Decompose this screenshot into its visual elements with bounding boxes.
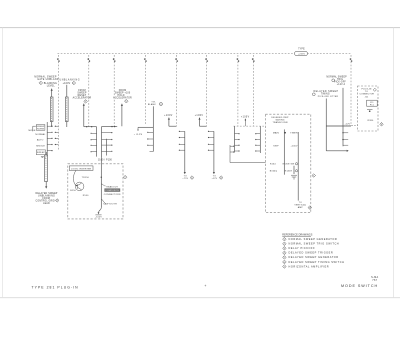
svg-text:R380: R380 bbox=[368, 120, 374, 122]
svg-text:TIMER: TIMER bbox=[290, 133, 298, 135]
svg-text:GATE UNBLANK: GATE UNBLANK bbox=[37, 78, 59, 81]
svg-text:-100V: -100V bbox=[95, 216, 102, 218]
svg-text:TYPE: TYPE bbox=[298, 48, 305, 50]
svg-text:B150: B150 bbox=[70, 190, 76, 192]
svg-text:J11: J11 bbox=[365, 96, 369, 98]
svg-text:NORM: NORM bbox=[37, 129, 44, 131]
svg-text:DELAYED SWEEP TIMING SWITCH: DELAYED SWEEP TIMING SWITCH bbox=[289, 261, 345, 264]
svg-text:MODE SWITCH: MODE SWITCH bbox=[341, 284, 378, 288]
svg-text:TR150: TR150 bbox=[82, 177, 90, 179]
svg-text:+100V: +100V bbox=[195, 115, 204, 117]
svg-text:SWP: SWP bbox=[273, 146, 279, 148]
svg-text:TYPE 281 PLUG-IN: TYPE 281 PLUG-IN bbox=[32, 285, 79, 289]
svg-text:MAIN: MAIN bbox=[273, 132, 279, 135]
svg-text:+75V: +75V bbox=[182, 178, 188, 180]
svg-text:NORMAL SWEEP TRIG SWITCH: NORMAL SWEEP TRIG SWITCH bbox=[289, 243, 340, 246]
svg-text:AUTO: AUTO bbox=[37, 138, 44, 141]
svg-text:PICK-OFF JITTER: PICK-OFF JITTER bbox=[318, 96, 339, 98]
svg-text:BLANKING: BLANKING bbox=[44, 82, 57, 85]
svg-text:ACCELERATOR: ACCELERATOR bbox=[73, 97, 92, 100]
svg-text:VERTICAL: VERTICAL bbox=[294, 204, 306, 207]
svg-text:DELAYED SWEEP: DELAYED SWEEP bbox=[35, 192, 57, 195]
svg-text:NORMAL SWEEP: NORMAL SWEEP bbox=[326, 75, 347, 78]
svg-text:P11: P11 bbox=[370, 105, 375, 107]
svg-text:+: + bbox=[204, 284, 206, 288]
svg-text:DELAYED SWEEP GENERATOR: DELAYED SWEEP GENERATOR bbox=[289, 256, 339, 259]
svg-text:R160: R160 bbox=[83, 195, 89, 197]
svg-text:B164Q: B164Q bbox=[270, 171, 278, 173]
svg-text:AMP: AMP bbox=[298, 206, 304, 209]
svg-text:SAWTOOTH: SAWTOOTH bbox=[103, 202, 117, 205]
svg-text:UNBLANKING: UNBLANKING bbox=[59, 78, 80, 81]
svg-text:UNBLANKING: UNBLANKING bbox=[38, 195, 55, 198]
svg-text:+225V: +225V bbox=[298, 54, 306, 56]
svg-text:SINGLE: SINGLE bbox=[36, 145, 45, 147]
svg-text:DELAY PICKOFF: DELAY PICKOFF bbox=[289, 247, 316, 250]
svg-text:+12V A: +12V A bbox=[337, 83, 346, 86]
svg-text:+100V: +100V bbox=[63, 83, 71, 85]
svg-text:+ CLPS: + CLPS bbox=[134, 134, 143, 136]
svg-text:CONNECTORS: CONNECTORS bbox=[104, 194, 121, 196]
svg-text:READOUT: READOUT bbox=[106, 185, 118, 188]
svg-text:LEVEL: LEVEL bbox=[47, 86, 56, 88]
svg-text:DELAYED SWP: DELAYED SWP bbox=[271, 116, 289, 119]
svg-text:COMPOSITE: COMPOSITE bbox=[105, 190, 119, 192]
svg-text:BLANK: BLANK bbox=[148, 103, 156, 106]
svg-text:LEAD: LEAD bbox=[43, 202, 50, 205]
svg-text:R164: R164 bbox=[270, 163, 276, 165]
svg-text:J100 / P100: J100 / P100 bbox=[98, 159, 113, 161]
svg-text:NORMAL: NORMAL bbox=[35, 133, 46, 136]
svg-text:DELAYED SWEEP TRIGGER: DELAYED SWEEP TRIGGER bbox=[289, 252, 334, 255]
svg-text:NORMAL SWEEP GENERATOR: NORMAL SWEEP GENERATOR bbox=[289, 238, 338, 241]
svg-text:ACCELERATOR: ACCELERATOR bbox=[113, 97, 132, 100]
svg-text:+12V: +12V bbox=[212, 178, 218, 180]
svg-text:REFERENCE DRAWINGS: REFERENCE DRAWINGS bbox=[282, 234, 312, 237]
svg-text:+100V: +100V bbox=[164, 115, 173, 117]
svg-text:LOGIC INVERTER: LOGIC INVERTER bbox=[71, 168, 92, 170]
svg-text:+100V: +100V bbox=[290, 146, 298, 148]
svg-text:NORMAL SWEEP: NORMAL SWEEP bbox=[34, 75, 57, 78]
svg-text:SWEEP: SWEEP bbox=[37, 152, 46, 154]
svg-text:GATING: GATING bbox=[275, 119, 284, 122]
svg-text:MODE: MODE bbox=[29, 130, 36, 132]
svg-text:HORIZONTAL AMPLIFIER: HORIZONTAL AMPLIFIER bbox=[289, 265, 330, 268]
svg-text:+12V: +12V bbox=[345, 123, 351, 125]
svg-text:R141R: R141R bbox=[285, 171, 293, 173]
svg-text:TRANSCONN: TRANSCONN bbox=[272, 121, 287, 124]
svg-text:+100V: +100V bbox=[241, 116, 250, 118]
svg-text:767: 767 bbox=[372, 279, 377, 282]
